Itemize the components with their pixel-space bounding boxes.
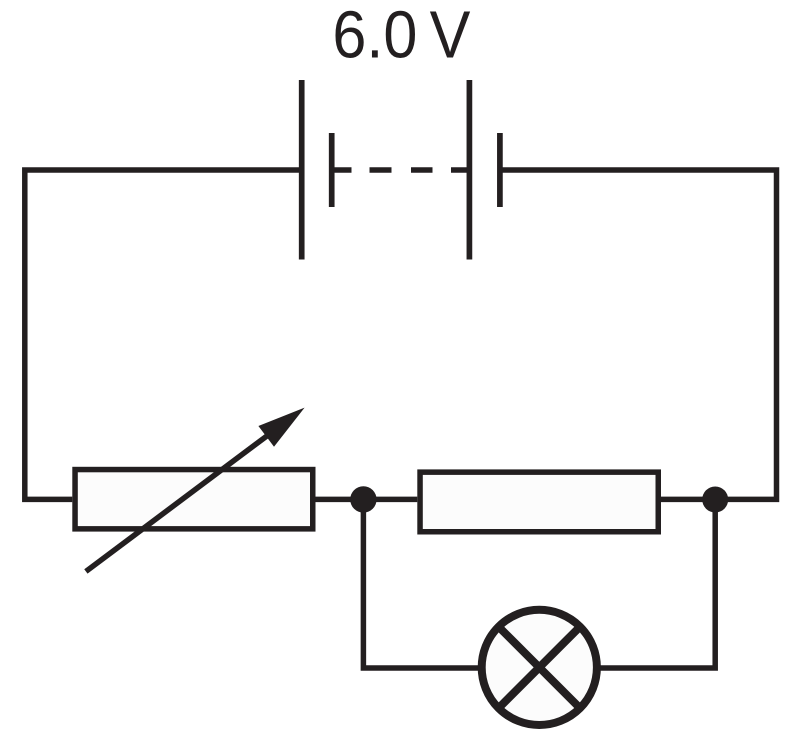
wire right loop (battery to node B) xyxy=(500,170,777,499)
battery dashed link (omitted cells) xyxy=(335,167,470,173)
node B junction dot xyxy=(702,487,728,513)
lamp L1 cross xyxy=(497,625,582,710)
lamp L1 fill xyxy=(482,610,597,725)
svg-text:6.0 V: 6.0 V xyxy=(332,0,470,73)
variable resistor R1 arrowhead xyxy=(258,408,304,447)
variable resistor R1 body xyxy=(75,470,313,529)
lamp L1 ring xyxy=(482,610,597,725)
wire left loop (battery to variable resistor) xyxy=(25,170,302,499)
node A junction dot xyxy=(350,486,376,512)
wire node A down to lamp xyxy=(363,499,481,668)
battery cell 2 negative plate xyxy=(497,133,503,207)
variable resistor R1 arrow shaft xyxy=(86,431,273,571)
battery cell 1 positive plate xyxy=(299,80,305,260)
battery cell 1 negative plate xyxy=(329,133,335,207)
battery cell 2 positive plate xyxy=(467,80,473,260)
wire R1 to R2 xyxy=(316,497,418,503)
resistor R2 body xyxy=(420,472,658,532)
wire lamp to node B xyxy=(598,499,715,668)
